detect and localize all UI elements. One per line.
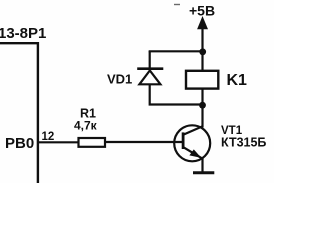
node B junction dot — [199, 102, 206, 109]
wire: collector up to node B — [201, 105, 203, 128]
wire: top of diode to node A — [149, 50, 203, 52]
svg-text:K1: K1 — [227, 72, 248, 89]
transistor VT1 base bar — [182, 132, 185, 149]
wire: diode VD1 bottom to node B — [150, 85, 202, 105]
diode VD1 cathode bar — [137, 67, 163, 70]
wire: +5V rail down to relay K1 — [201, 24, 203, 71]
diode VD1 lead to top wire — [149, 51, 151, 70]
wire: pin 12 to resistor R1 — [39, 141, 78, 143]
svg-text:13-8Р1: 13-8Р1 — [0, 25, 46, 42]
transistor VT1 emitter stroke with arrow — [184, 147, 203, 158]
+5V arrow head — [197, 16, 208, 29]
svg-text:КТ315Б: КТ315Б — [221, 136, 266, 150]
transistor VT1 collector stroke — [184, 126, 203, 134]
transistor VT1 circle — [174, 125, 210, 161]
wire: resistor R1 to transistor VT1 base — [106, 141, 182, 143]
IC box DD1 (partial, top-right corner) — [0, 43, 38, 183]
relay K1 coil box — [186, 71, 218, 89]
svg-text:+5В: +5В — [189, 3, 215, 19]
wire: emitter to ground — [201, 157, 203, 173]
svg-text:4,7к: 4,7к — [74, 119, 98, 133]
node A junction dot — [199, 48, 206, 55]
svg-text:VD1: VD1 — [107, 72, 132, 87]
diode VD1 triangle — [139, 71, 160, 85]
ground symbol — [193, 171, 214, 174]
speck artifact — [174, 4, 180, 6]
svg-text:РВ0: РВ0 — [5, 135, 34, 152]
resistor R1 body — [79, 138, 106, 147]
wire: relay K1 bottom to node B — [201, 89, 203, 106]
